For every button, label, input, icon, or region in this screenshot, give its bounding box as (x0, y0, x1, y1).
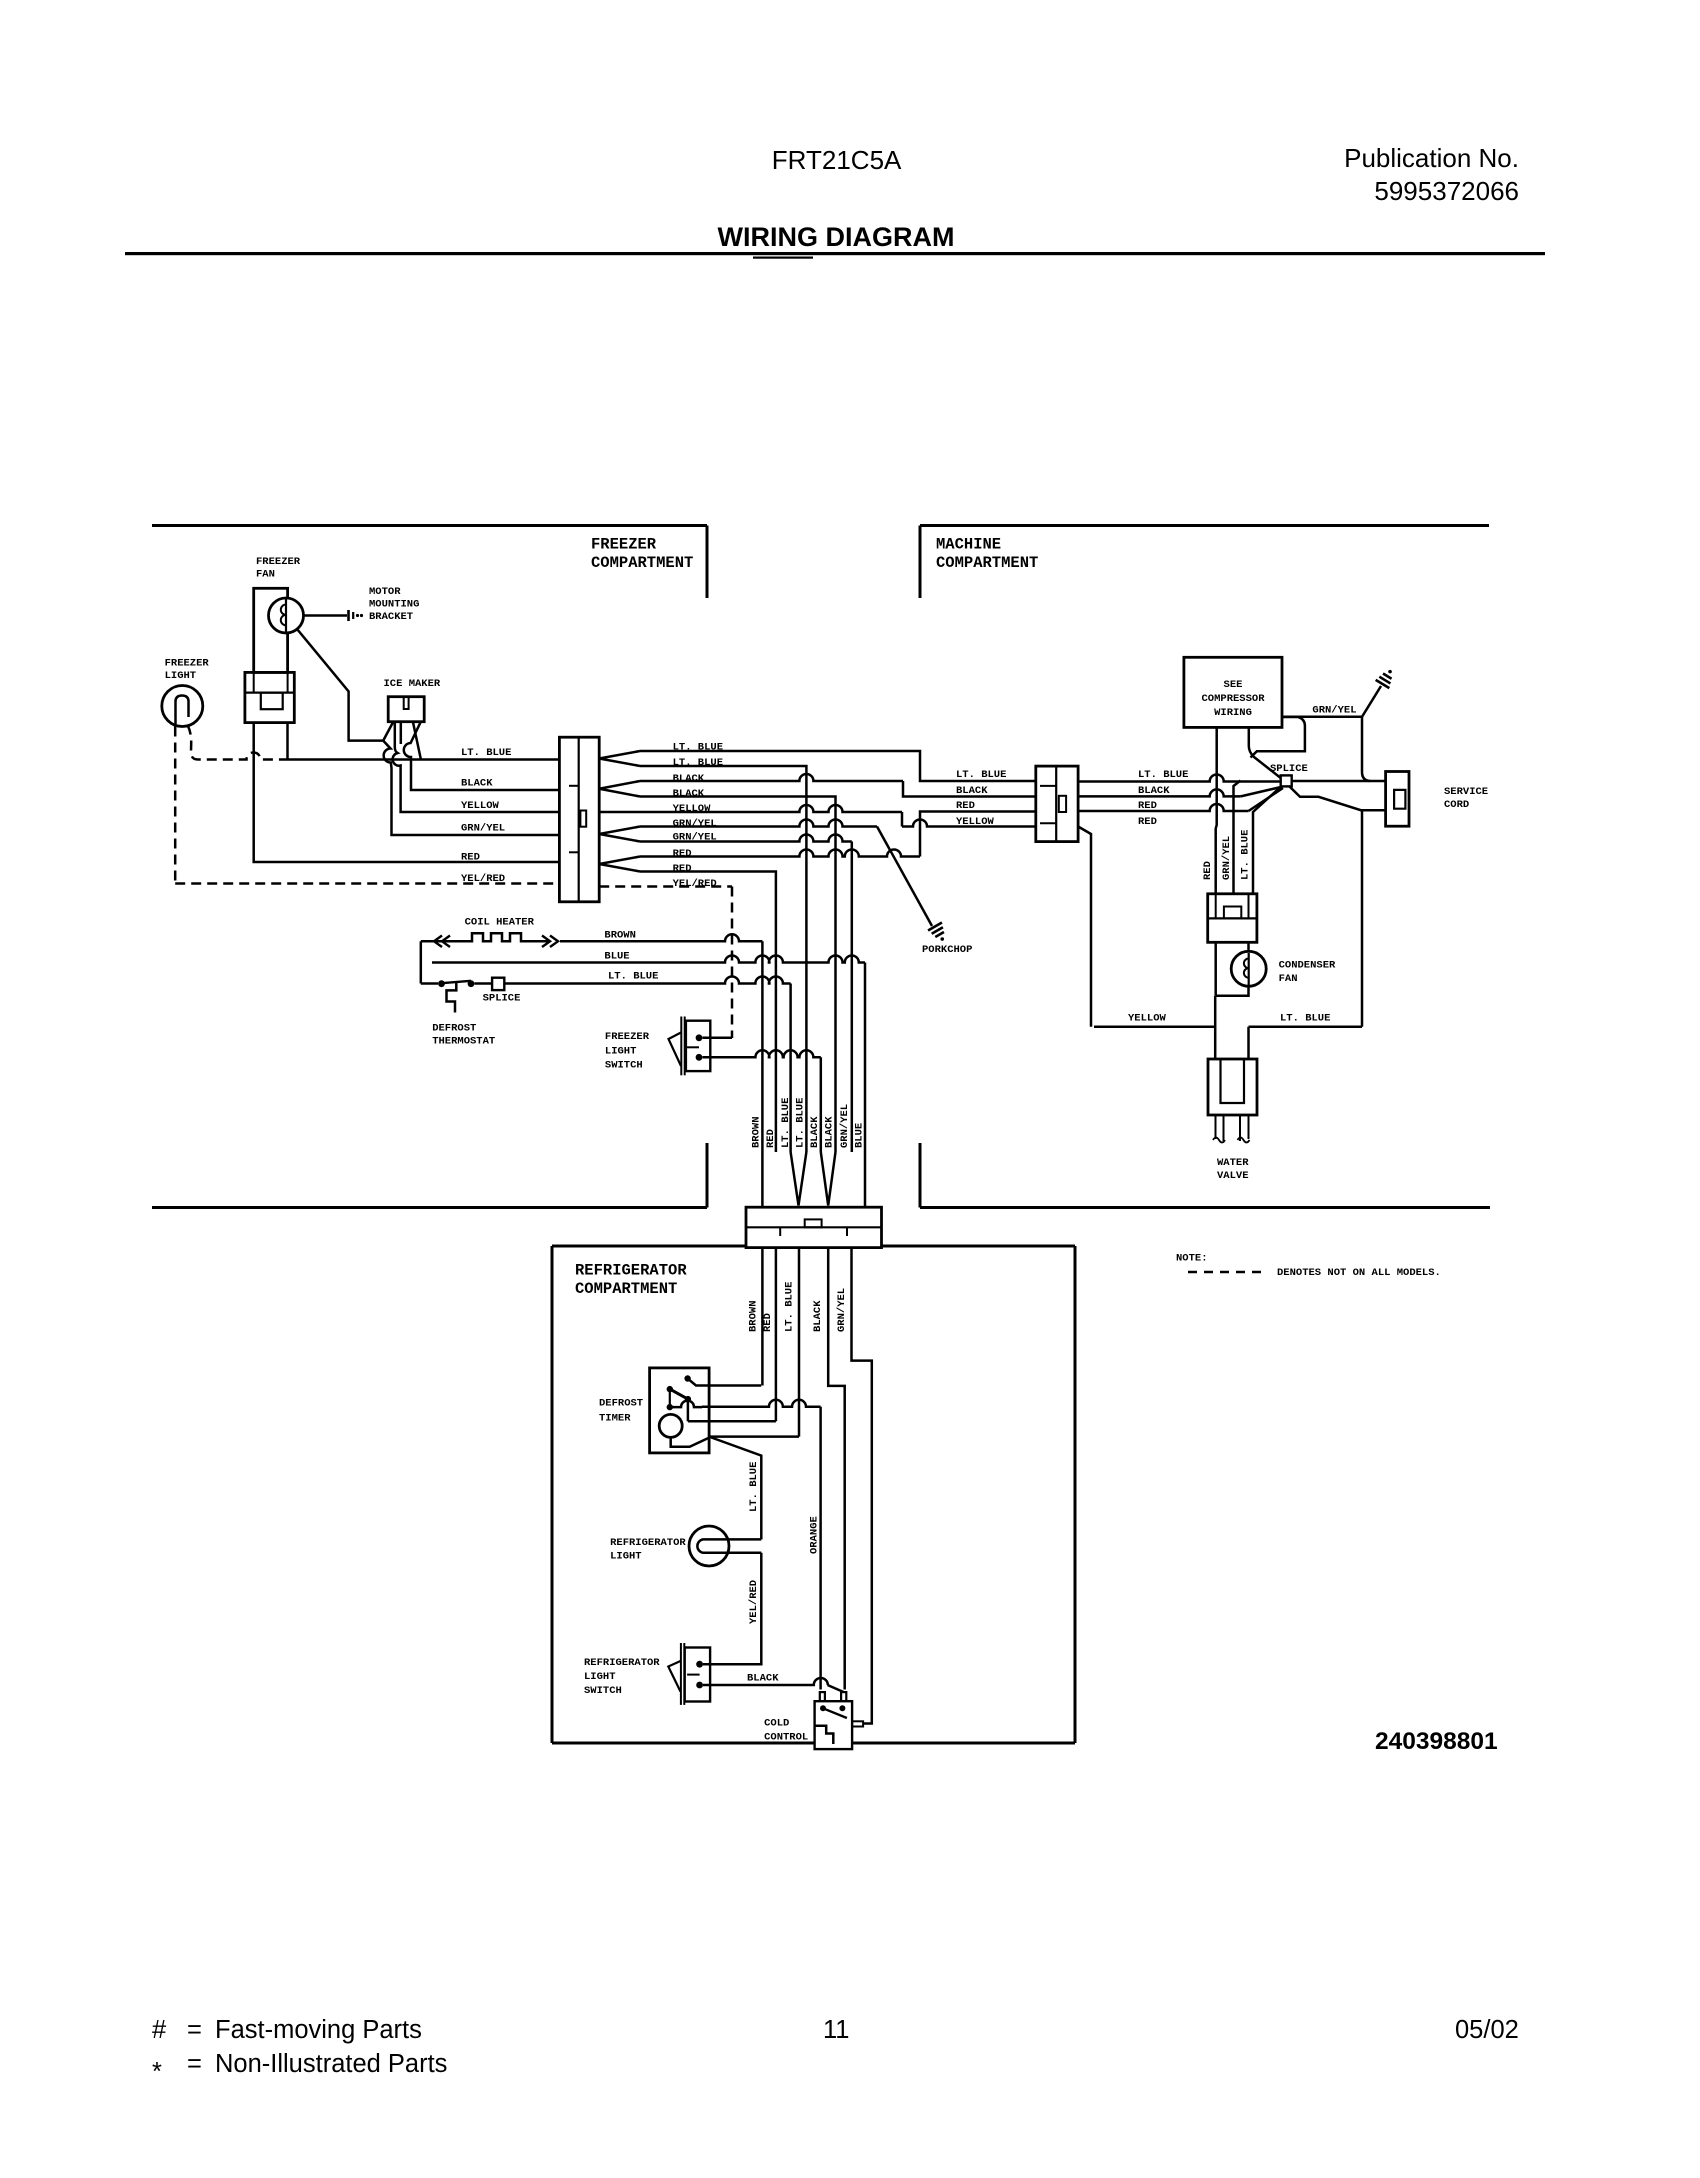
svg-text:BLUE: BLUE (604, 951, 629, 963)
svg-text:GRN/YEL: GRN/YEL (1221, 836, 1233, 880)
svg-text:=: = (187, 2050, 202, 2078)
svg-text:COMPARTMENT: COMPARTMENT (936, 554, 1038, 572)
svg-text:YELLOW: YELLOW (1128, 1013, 1167, 1025)
svg-text:BLACK: BLACK (747, 1673, 779, 1685)
svg-text:LT. BLUE: LT. BLUE (780, 1098, 792, 1148)
svg-text:LT. BLUE: LT. BLUE (673, 757, 723, 769)
svg-text:SPLICE: SPLICE (483, 993, 521, 1005)
svg-text:WIRING DIAGRAM: WIRING DIAGRAM (718, 222, 955, 252)
svg-text:REFRIGERATOR: REFRIGERATOR (610, 1537, 686, 1549)
svg-text:LT. BLUE: LT. BLUE (461, 747, 511, 759)
svg-text:LIGHT: LIGHT (165, 670, 197, 682)
svg-text:GRN/YEL: GRN/YEL (461, 823, 505, 835)
svg-text:LT. BLUE: LT. BLUE (748, 1462, 760, 1512)
svg-text:COMPRESSOR: COMPRESSOR (1201, 693, 1265, 705)
svg-text:Non-Illustrated Parts: Non-Illustrated Parts (215, 2050, 447, 2078)
svg-text:*: * (152, 2058, 162, 2086)
svg-text:COLD: COLD (764, 1718, 789, 1730)
svg-text:BLACK: BLACK (461, 778, 493, 790)
svg-text:#: # (152, 2016, 167, 2044)
svg-text:WATER: WATER (1217, 1157, 1249, 1169)
svg-text:PORKCHOP: PORKCHOP (922, 944, 972, 956)
svg-text:LT. BLUE: LT. BLUE (1280, 1013, 1330, 1025)
svg-text:Fast-moving Parts: Fast-moving Parts (215, 2016, 422, 2044)
svg-text:BLACK: BLACK (673, 773, 705, 785)
svg-text:BROWN: BROWN (748, 1300, 760, 1332)
svg-text:NOTE:: NOTE: (1176, 1253, 1208, 1265)
svg-text:YELLOW: YELLOW (673, 803, 712, 815)
svg-text:COMPARTMENT: COMPARTMENT (575, 1280, 677, 1298)
svg-text:YELLOW: YELLOW (956, 816, 995, 828)
svg-text:BLACK: BLACK (824, 1116, 836, 1148)
svg-text:MACHINE: MACHINE (936, 536, 1001, 554)
svg-text:LT. BLUE: LT. BLUE (1240, 830, 1252, 880)
svg-text:RED: RED (1138, 800, 1157, 812)
svg-text:LT. BLUE: LT. BLUE (673, 742, 723, 754)
svg-text:RED: RED (765, 1129, 777, 1148)
svg-text:YEL/RED: YEL/RED (461, 873, 505, 885)
svg-text:BLACK: BLACK (673, 788, 705, 800)
svg-text:COMPARTMENT: COMPARTMENT (591, 554, 693, 572)
svg-text:BLACK: BLACK (956, 785, 988, 797)
svg-text:MOUNTING: MOUNTING (369, 599, 419, 611)
svg-text:RED: RED (956, 800, 975, 812)
svg-text:5995372066: 5995372066 (1374, 176, 1519, 206)
svg-text:YELLOW: YELLOW (461, 800, 500, 812)
svg-text:REFRIGERATOR: REFRIGERATOR (584, 1657, 660, 1669)
svg-text:BLACK: BLACK (1138, 785, 1170, 797)
svg-text:BLACK: BLACK (812, 1300, 824, 1332)
svg-text:LT. BLUE: LT. BLUE (795, 1098, 807, 1148)
svg-text:240398801: 240398801 (1375, 1728, 1498, 1755)
svg-text:DEFROST: DEFROST (432, 1023, 476, 1035)
svg-text:CONTROL: CONTROL (764, 1732, 808, 1744)
svg-text:CORD: CORD (1444, 799, 1469, 811)
svg-text:WIRING: WIRING (1214, 707, 1252, 719)
svg-text:LIGHT: LIGHT (605, 1046, 637, 1058)
svg-text:GRN/YEL: GRN/YEL (839, 1104, 851, 1148)
svg-text:RED: RED (673, 848, 692, 860)
svg-text:CONDENSER: CONDENSER (1279, 960, 1336, 972)
svg-text:BLACK: BLACK (809, 1116, 821, 1148)
svg-text:FREEZER: FREEZER (165, 658, 210, 670)
svg-text:FAN: FAN (256, 569, 275, 581)
svg-text:LT. BLUE: LT. BLUE (956, 769, 1006, 781)
svg-text:RED: RED (461, 852, 480, 864)
svg-text:REFRIGERATOR: REFRIGERATOR (575, 1262, 687, 1280)
svg-text:BROWN: BROWN (604, 930, 636, 942)
svg-text:RED: RED (1138, 816, 1157, 828)
svg-text:FREEZER: FREEZER (256, 556, 301, 568)
svg-text:GRN/YEL: GRN/YEL (673, 832, 717, 844)
svg-text:GRN/YEL: GRN/YEL (836, 1288, 848, 1332)
svg-text:SWITCH: SWITCH (584, 1685, 622, 1697)
svg-text:Publication No.: Publication No. (1344, 143, 1519, 173)
svg-text:THERMOSTAT: THERMOSTAT (432, 1036, 495, 1048)
svg-text:FREEZER: FREEZER (605, 1031, 650, 1043)
svg-text:FRT21C5A: FRT21C5A (772, 145, 902, 175)
svg-text:MOTOR: MOTOR (369, 586, 401, 598)
svg-text:SWITCH: SWITCH (605, 1060, 643, 1072)
svg-text:11: 11 (823, 2016, 849, 2044)
svg-text:YEL/RED: YEL/RED (673, 878, 717, 890)
svg-text:GRN/YEL: GRN/YEL (1312, 705, 1356, 717)
svg-text:VALVE: VALVE (1217, 1170, 1249, 1182)
svg-text:RED: RED (673, 863, 692, 875)
svg-text:TIMER: TIMER (599, 1413, 631, 1425)
svg-text:LIGHT: LIGHT (610, 1551, 642, 1563)
svg-text:LT. BLUE: LT. BLUE (784, 1282, 796, 1332)
svg-text:LIGHT: LIGHT (584, 1671, 616, 1683)
svg-text:BROWN: BROWN (751, 1116, 763, 1148)
svg-text:=: = (187, 2016, 202, 2044)
svg-text:RED: RED (762, 1313, 774, 1332)
svg-text:RED: RED (1202, 861, 1214, 880)
svg-text:FAN: FAN (1279, 973, 1298, 985)
svg-text:ORANGE: ORANGE (809, 1516, 821, 1554)
svg-text:SEE: SEE (1224, 679, 1243, 691)
svg-text:LT. BLUE: LT. BLUE (1138, 769, 1188, 781)
svg-text:LT. BLUE: LT. BLUE (608, 971, 658, 983)
svg-text:05/02: 05/02 (1455, 2016, 1519, 2044)
svg-text:FREEZER: FREEZER (591, 536, 657, 554)
svg-text:DEFROST: DEFROST (599, 1398, 643, 1410)
svg-text:COIL HEATER: COIL HEATER (465, 917, 535, 929)
svg-text:SERVICE: SERVICE (1444, 786, 1488, 798)
svg-text:GRN/YEL: GRN/YEL (673, 818, 717, 830)
svg-text:ICE MAKER: ICE MAKER (384, 678, 441, 690)
svg-text:DENOTES NOT ON ALL MODELS.: DENOTES NOT ON ALL MODELS. (1277, 1267, 1441, 1279)
svg-text:BLUE: BLUE (854, 1123, 866, 1148)
svg-text:YEL/RED: YEL/RED (748, 1580, 760, 1624)
svg-text:BRACKET: BRACKET (369, 611, 413, 623)
